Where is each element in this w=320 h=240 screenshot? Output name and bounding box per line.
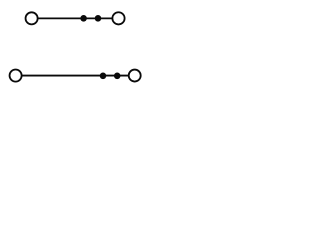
terminal circle (lower right clamp point)	[129, 70, 141, 82]
junction dot (upper bridge contact 2)	[95, 15, 102, 22]
terminal circle (upper left clamp point)	[26, 12, 38, 24]
junction dot (lower bridge contact 2)	[114, 73, 121, 80]
wire (lower level conductor)	[16, 75, 135, 77]
terminal circle (upper right clamp point)	[112, 12, 124, 24]
junction dot (lower bridge contact 1)	[100, 73, 107, 80]
junction dot (upper bridge contact 1)	[80, 15, 87, 22]
terminal circle (lower left clamp point)	[10, 70, 22, 82]
wire (upper level conductor)	[32, 17, 119, 19]
